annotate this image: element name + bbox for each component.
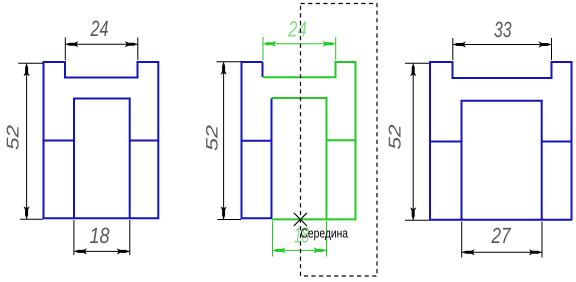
svg-text:Середина: Середина — [301, 226, 349, 241]
svg-text:18: 18 — [90, 223, 111, 248]
svg-text:27: 27 — [491, 223, 511, 248]
svg-text:52: 52 — [386, 124, 405, 150]
svg-text:52: 52 — [203, 125, 221, 151]
svg-text:33: 33 — [494, 17, 512, 42]
svg-text:24: 24 — [90, 16, 109, 41]
svg-text:24: 24 — [287, 17, 307, 42]
svg-text:52: 52 — [3, 124, 22, 150]
